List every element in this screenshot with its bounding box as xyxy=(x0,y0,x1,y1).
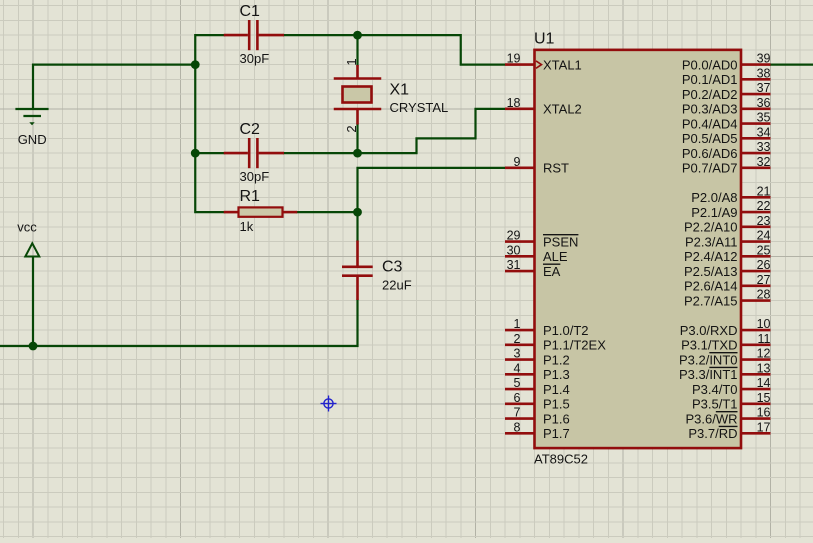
svg-text:33: 33 xyxy=(757,140,771,154)
junction node A xyxy=(191,60,200,69)
svg-text:P1.0/T2: P1.0/T2 xyxy=(543,323,589,338)
svg-text:P1.6: P1.6 xyxy=(543,411,570,426)
U1 pin 32 (P0.7/AD7) stub xyxy=(741,167,771,170)
U1 pin 13 (P3.3/INT1) stub xyxy=(741,373,771,376)
svg-text:1k: 1k xyxy=(240,219,254,234)
svg-text:P3.2/INT0: P3.2/INT0 xyxy=(679,352,738,367)
U1 pin 30 (ALE) stub xyxy=(505,255,535,258)
svg-text:14: 14 xyxy=(757,376,771,390)
svg-text:P0.6/AD6: P0.6/AD6 xyxy=(682,146,738,161)
svg-text:P1.4: P1.4 xyxy=(543,382,570,397)
svg-text:18: 18 xyxy=(507,96,521,110)
svg-text:P1.3: P1.3 xyxy=(543,367,570,382)
svg-text:P2.6/A14: P2.6/A14 xyxy=(684,279,738,294)
svg-text:2: 2 xyxy=(344,125,359,132)
svg-text:26: 26 xyxy=(757,258,771,272)
svg-text:C2: C2 xyxy=(240,121,261,138)
U1 pin name PSEN overline xyxy=(543,234,578,236)
junction node D xyxy=(353,149,362,158)
op-amp/micro U1 AT89C52 body xyxy=(534,30,741,466)
svg-text:3: 3 xyxy=(514,347,521,361)
svg-text:35: 35 xyxy=(757,111,771,125)
wire: crystal-top junction to XTAL1 pin xyxy=(358,35,505,65)
U1 pin 16 (P3.6/WR) stub xyxy=(741,417,771,420)
svg-text:23: 23 xyxy=(757,214,771,228)
crystal X1 xyxy=(334,58,449,132)
U1 pin 5 (P1.4) stub xyxy=(505,388,535,391)
svg-text:ALE: ALE xyxy=(543,249,568,264)
wire: C2 right to junction xyxy=(284,152,358,154)
U1 pin 11 (P3.1/TXD) stub xyxy=(741,344,771,347)
svg-text:P2.5/A13: P2.5/A13 xyxy=(684,264,738,279)
svg-text:GND: GND xyxy=(18,132,47,147)
svg-text:1: 1 xyxy=(344,58,359,65)
U1 pin 4 (P1.3) stub xyxy=(505,373,535,376)
resistor R1 xyxy=(224,188,298,234)
U1 pin 10 (P3.0/RXD) stub xyxy=(741,329,771,332)
U1 pin name P3.3/INT1 overline xyxy=(709,366,737,368)
svg-text:39: 39 xyxy=(757,52,771,66)
wire: GND net horizontal and stem xyxy=(33,65,195,108)
junction node F xyxy=(29,342,38,351)
U1 pin 7 (P1.6) stub xyxy=(505,417,535,420)
svg-text:8: 8 xyxy=(514,420,521,434)
origin marker (blue crosshair) xyxy=(321,396,337,412)
svg-text:AT89C52: AT89C52 xyxy=(534,452,588,467)
svg-text:10: 10 xyxy=(757,317,771,331)
svg-text:P2.7/A15: P2.7/A15 xyxy=(684,293,738,308)
svg-text:P2.1/A9: P2.1/A9 xyxy=(691,205,737,220)
svg-text:17: 17 xyxy=(757,420,771,434)
svg-text:27: 27 xyxy=(757,273,771,287)
svg-text:25: 25 xyxy=(757,243,771,257)
svg-text:P3.3/INT1: P3.3/INT1 xyxy=(679,367,738,382)
svg-text:vcc: vcc xyxy=(17,220,37,235)
svg-text:P3.7/RD: P3.7/RD xyxy=(688,426,737,441)
ground symbol GND xyxy=(17,109,48,147)
svg-text:4: 4 xyxy=(514,361,521,375)
U1 pin 36 (P0.3/AD3) stub xyxy=(741,108,771,111)
svg-text:2: 2 xyxy=(514,332,521,346)
wire: junction down to C3 xyxy=(356,212,358,240)
wire: VCC stem down to rail xyxy=(32,257,34,346)
svg-text:P2.4/A12: P2.4/A12 xyxy=(684,249,738,264)
svg-text:P3.6/WR: P3.6/WR xyxy=(685,411,737,426)
U1 pin 35 (P0.4/AD4) stub xyxy=(741,122,771,125)
wire: RST pin to R1/C3 junction xyxy=(358,168,505,212)
wire: C3 bottom to ground rail xyxy=(0,300,358,346)
wire: R1 right to junction xyxy=(297,211,357,213)
svg-text:15: 15 xyxy=(757,391,771,405)
svg-text:11: 11 xyxy=(758,332,771,346)
svg-text:9: 9 xyxy=(514,155,521,169)
U1 XTAL1 clock chevron xyxy=(536,61,542,68)
U1 pin 14 (P3.4/T0) stub xyxy=(741,388,771,391)
capacitor C3 xyxy=(342,241,412,301)
svg-text:6: 6 xyxy=(514,391,521,405)
U1 pin 12 (P3.2/INT0) stub xyxy=(741,358,771,361)
U1 pin 28 (P2.7/A15) stub xyxy=(741,299,771,302)
svg-text:P0.0/AD0: P0.0/AD0 xyxy=(682,57,738,72)
svg-text:P1.7: P1.7 xyxy=(543,426,570,441)
junction node C xyxy=(353,31,362,40)
svg-text:5: 5 xyxy=(514,376,521,390)
U1 pin 8 (P1.7) stub xyxy=(505,432,535,435)
svg-text:P0.1/AD1: P0.1/AD1 xyxy=(682,72,738,87)
U1 pin 18 (XTAL2) stub xyxy=(505,108,535,111)
svg-text:13: 13 xyxy=(757,361,771,375)
power symbol VCC xyxy=(17,220,39,257)
wire: P0.0/AD0 pin 39 wire to edge xyxy=(771,63,813,65)
svg-text:P0.4/AD4: P0.4/AD4 xyxy=(682,116,738,131)
U1 pin 38 (P0.1/AD1) stub xyxy=(741,78,771,81)
svg-text:R1: R1 xyxy=(240,188,261,205)
U1 pin 26 (P2.5/A13) stub xyxy=(741,270,771,273)
svg-text:P3.1/TXD: P3.1/TXD xyxy=(681,338,737,353)
svg-text:X1: X1 xyxy=(390,81,410,98)
U1 pin 37 (P0.2/AD2) stub xyxy=(741,93,771,96)
U1 pin name P3.2/INT0 overline xyxy=(709,352,737,354)
wire: C1 right to crystal-top junction xyxy=(284,34,358,36)
U1 pin 25 (P2.4/A12) stub xyxy=(741,255,771,258)
svg-text:P3.4/T0: P3.4/T0 xyxy=(692,382,738,397)
svg-text:C1: C1 xyxy=(240,3,261,20)
svg-text:12: 12 xyxy=(757,347,771,361)
svg-text:37: 37 xyxy=(757,81,771,95)
svg-text:38: 38 xyxy=(757,66,771,80)
U1 pin 23 (P2.2/A10) stub xyxy=(741,226,771,229)
svg-text:P0.5/AD5: P0.5/AD5 xyxy=(682,131,738,146)
svg-text:U1: U1 xyxy=(534,30,555,47)
svg-text:34: 34 xyxy=(757,125,771,139)
U1 pin name P3.7/RD overline xyxy=(719,425,738,427)
svg-text:P0.7/AD7: P0.7/AD7 xyxy=(682,161,738,176)
svg-text:XTAL2: XTAL2 xyxy=(543,102,582,117)
svg-text:P3.5/T1: P3.5/T1 xyxy=(692,397,738,412)
svg-text:29: 29 xyxy=(507,229,521,243)
U1 pin 15 (P3.5/T1) stub xyxy=(741,403,771,406)
svg-text:RST: RST xyxy=(543,161,569,176)
U1 pin 2 (P1.1/T2EX) stub xyxy=(505,344,535,347)
svg-text:7: 7 xyxy=(514,406,521,420)
svg-text:36: 36 xyxy=(757,96,771,110)
svg-text:P0.3/AD3: P0.3/AD3 xyxy=(682,102,738,117)
svg-text:28: 28 xyxy=(757,288,771,302)
U1 pin 22 (P2.1/A9) stub xyxy=(741,211,771,214)
junction node E xyxy=(353,208,362,217)
svg-text:24: 24 xyxy=(757,229,771,243)
U1 pin 19 (XTAL1) stub xyxy=(505,63,535,66)
svg-text:30: 30 xyxy=(507,243,521,257)
svg-text:P0.2/AD2: P0.2/AD2 xyxy=(682,87,738,102)
svg-text:P3.0/RXD: P3.0/RXD xyxy=(680,323,738,338)
svg-text:P1.1/T2EX: P1.1/T2EX xyxy=(543,338,606,353)
U1 pin 1 (P1.0/T2) stub xyxy=(505,329,535,332)
svg-text:CRYSTAL: CRYSTAL xyxy=(390,100,449,115)
wire: crystal top connection xyxy=(356,35,358,65)
U1 pin 33 (P0.6/AD6) stub xyxy=(741,152,771,155)
capacitor C2 xyxy=(224,121,284,184)
svg-text:P1.5: P1.5 xyxy=(543,397,570,412)
svg-text:XTAL1: XTAL1 xyxy=(543,57,582,72)
svg-text:22uF: 22uF xyxy=(382,277,412,292)
svg-text:22: 22 xyxy=(757,199,771,213)
wire: junction to XTAL2 pin (staircase) xyxy=(358,109,505,153)
junction node B xyxy=(191,149,200,158)
svg-text:P2.3/A11: P2.3/A11 xyxy=(685,234,738,249)
svg-text:EA: EA xyxy=(543,264,561,279)
U1 pin 39 (P0.0/AD0) stub xyxy=(741,63,771,66)
U1 pin 9 (RST) stub xyxy=(505,167,535,170)
U1 pin 3 (P1.2) stub xyxy=(505,358,535,361)
svg-text:21: 21 xyxy=(757,184,771,198)
U1 pin 21 (P2.0/A8) stub xyxy=(741,196,771,199)
wire: C1 left / left vertical bus / R1 left (net XTAL1 side) xyxy=(195,35,224,212)
svg-text:C3: C3 xyxy=(382,259,403,276)
capacitor C1 xyxy=(224,3,284,66)
svg-text:P1.2: P1.2 xyxy=(543,352,570,367)
wire: crystal bottom connection xyxy=(356,125,358,154)
U1 pin 29 (PSEN) stub xyxy=(505,240,535,243)
svg-text:30pF: 30pF xyxy=(240,169,270,184)
svg-text:31: 31 xyxy=(507,258,521,272)
svg-text:1: 1 xyxy=(514,317,521,331)
svg-text:30pF: 30pF xyxy=(240,51,270,66)
U1 pin 27 (P2.6/A14) stub xyxy=(741,285,771,288)
svg-text:16: 16 xyxy=(757,406,771,420)
svg-text:P2.0/A8: P2.0/A8 xyxy=(691,190,737,205)
U1 pin name P3.6/WR overline xyxy=(716,411,738,413)
U1 pin 6 (P1.5) stub xyxy=(505,403,535,406)
svg-text:P2.2/A10: P2.2/A10 xyxy=(684,220,738,235)
svg-text:PSEN: PSEN xyxy=(543,234,578,249)
U1 pin 24 (P2.3/A11) stub xyxy=(741,240,771,243)
U1 pin name EA overline xyxy=(543,263,560,265)
U1 pin 17 (P3.7/RD) stub xyxy=(741,432,771,435)
svg-text:19: 19 xyxy=(507,52,521,66)
svg-text:32: 32 xyxy=(757,155,771,169)
wire: C2 left lead connection xyxy=(195,152,224,154)
U1 pin 34 (P0.5/AD5) stub xyxy=(741,137,771,140)
U1 pin 31 (EA) stub xyxy=(505,270,535,273)
